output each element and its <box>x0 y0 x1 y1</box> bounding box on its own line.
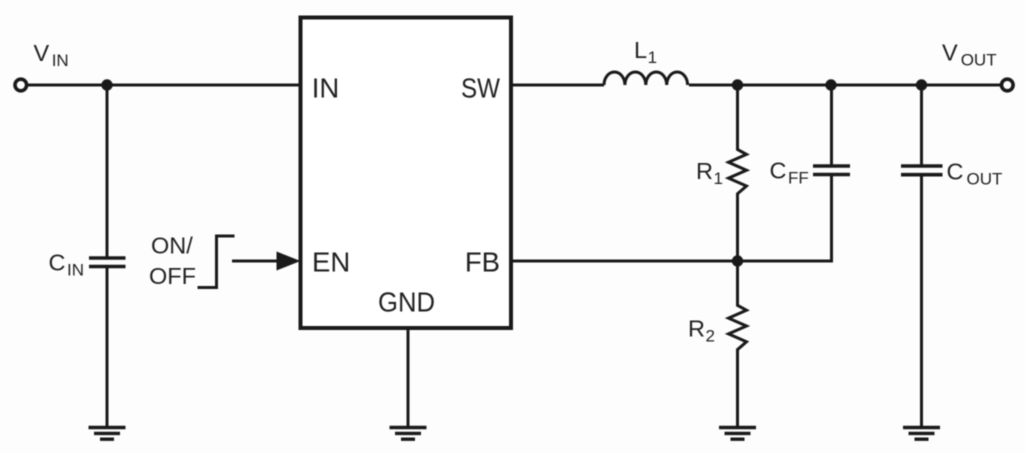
arrowhead into EN <box>277 252 301 271</box>
capacitor CFF <box>813 166 850 175</box>
wire EN arrow line <box>232 260 280 263</box>
ground under R2 <box>719 428 756 440</box>
wire CFF top <box>830 85 833 165</box>
step waveform symbol <box>198 236 235 288</box>
junction COUT top node <box>916 79 927 90</box>
junction FB node <box>732 255 743 266</box>
capacitor CIN <box>89 258 126 267</box>
node VIN terminal <box>15 79 27 91</box>
resistor R1 <box>729 85 747 261</box>
node VOUT terminal <box>1002 79 1014 91</box>
wire L1 to VOUT rail <box>689 84 1002 87</box>
wire VIN to IN pin <box>28 84 299 87</box>
ground under COUT <box>903 428 940 440</box>
junction R1 top node <box>732 79 743 90</box>
resistor R2 <box>729 261 747 428</box>
svg-text:EN: EN <box>312 247 350 278</box>
svg-text:OFF: OFF <box>149 263 196 289</box>
wire FB rail to CFF bottom <box>513 175 832 261</box>
wire GND pin to ground <box>407 326 410 428</box>
ground under GND pin <box>390 428 427 440</box>
label ON/OFF <box>149 233 196 290</box>
junction input node <box>101 79 112 90</box>
svg-text:GND: GND <box>378 287 435 318</box>
wire SW to L1 <box>513 84 604 87</box>
wire COUT to ground <box>920 177 923 428</box>
op-amp U1 regulator box <box>301 18 512 329</box>
svg-text:FB: FB <box>465 247 500 278</box>
ground under CIN <box>89 428 126 440</box>
inductor L1 <box>604 72 688 85</box>
svg-text:SW: SW <box>461 73 500 104</box>
wire COUT top <box>920 85 923 165</box>
junction CFF top node <box>825 79 836 90</box>
svg-text:ON/: ON/ <box>151 233 193 259</box>
svg-text:IN: IN <box>312 73 340 104</box>
capacitor COUT <box>901 166 943 175</box>
wire CIN to ground <box>106 268 109 428</box>
wire input node down to CIN <box>106 85 109 257</box>
